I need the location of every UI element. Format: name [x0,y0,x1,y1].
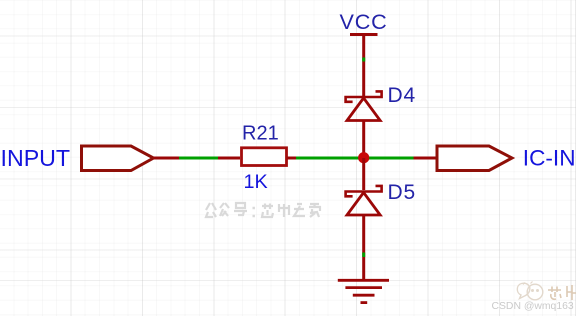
svg-text:INPUT: INPUT [1,145,71,171]
resistor R21 [242,123,287,194]
svg-text:R21: R21 [242,123,279,145]
wire green segment above ground [362,253,365,258]
diode D5 [346,181,416,215]
diode D4 [346,84,416,121]
wire node A to D5 [362,158,365,190]
svg-text:CSDN @wmq163: CSDN @wmq163 [492,301,574,312]
watermark 公众号：芯片之家 [206,203,320,217]
port IC-IN [437,146,576,171]
svg-text:IC-IN: IC-IN [523,146,576,171]
wire VCC to D4 [362,58,365,62]
wire D5 to ground [362,215,365,279]
wire R21 left pin [218,157,240,160]
power symbol VCC [340,9,388,96]
watermark 芯片 text [548,285,576,300]
ground [338,280,389,302]
wire R21 right pin [287,157,296,160]
svg-text:1K: 1K [244,171,268,193]
wire node A to IC-IN [363,157,414,160]
svg-text:VCC: VCC [340,9,388,34]
svg-text:D5: D5 [388,181,416,204]
node A junction [358,152,369,163]
svg-text:D4: D4 [388,84,416,107]
wire INPUT to R21 [179,157,218,160]
wire INPUT pin [154,157,180,160]
port INPUT [1,145,154,171]
watermark logo chick [517,282,542,300]
wire D4 to node A [362,121,365,158]
wire R21 to node A [296,157,363,160]
wire IC-IN pin [414,157,438,160]
